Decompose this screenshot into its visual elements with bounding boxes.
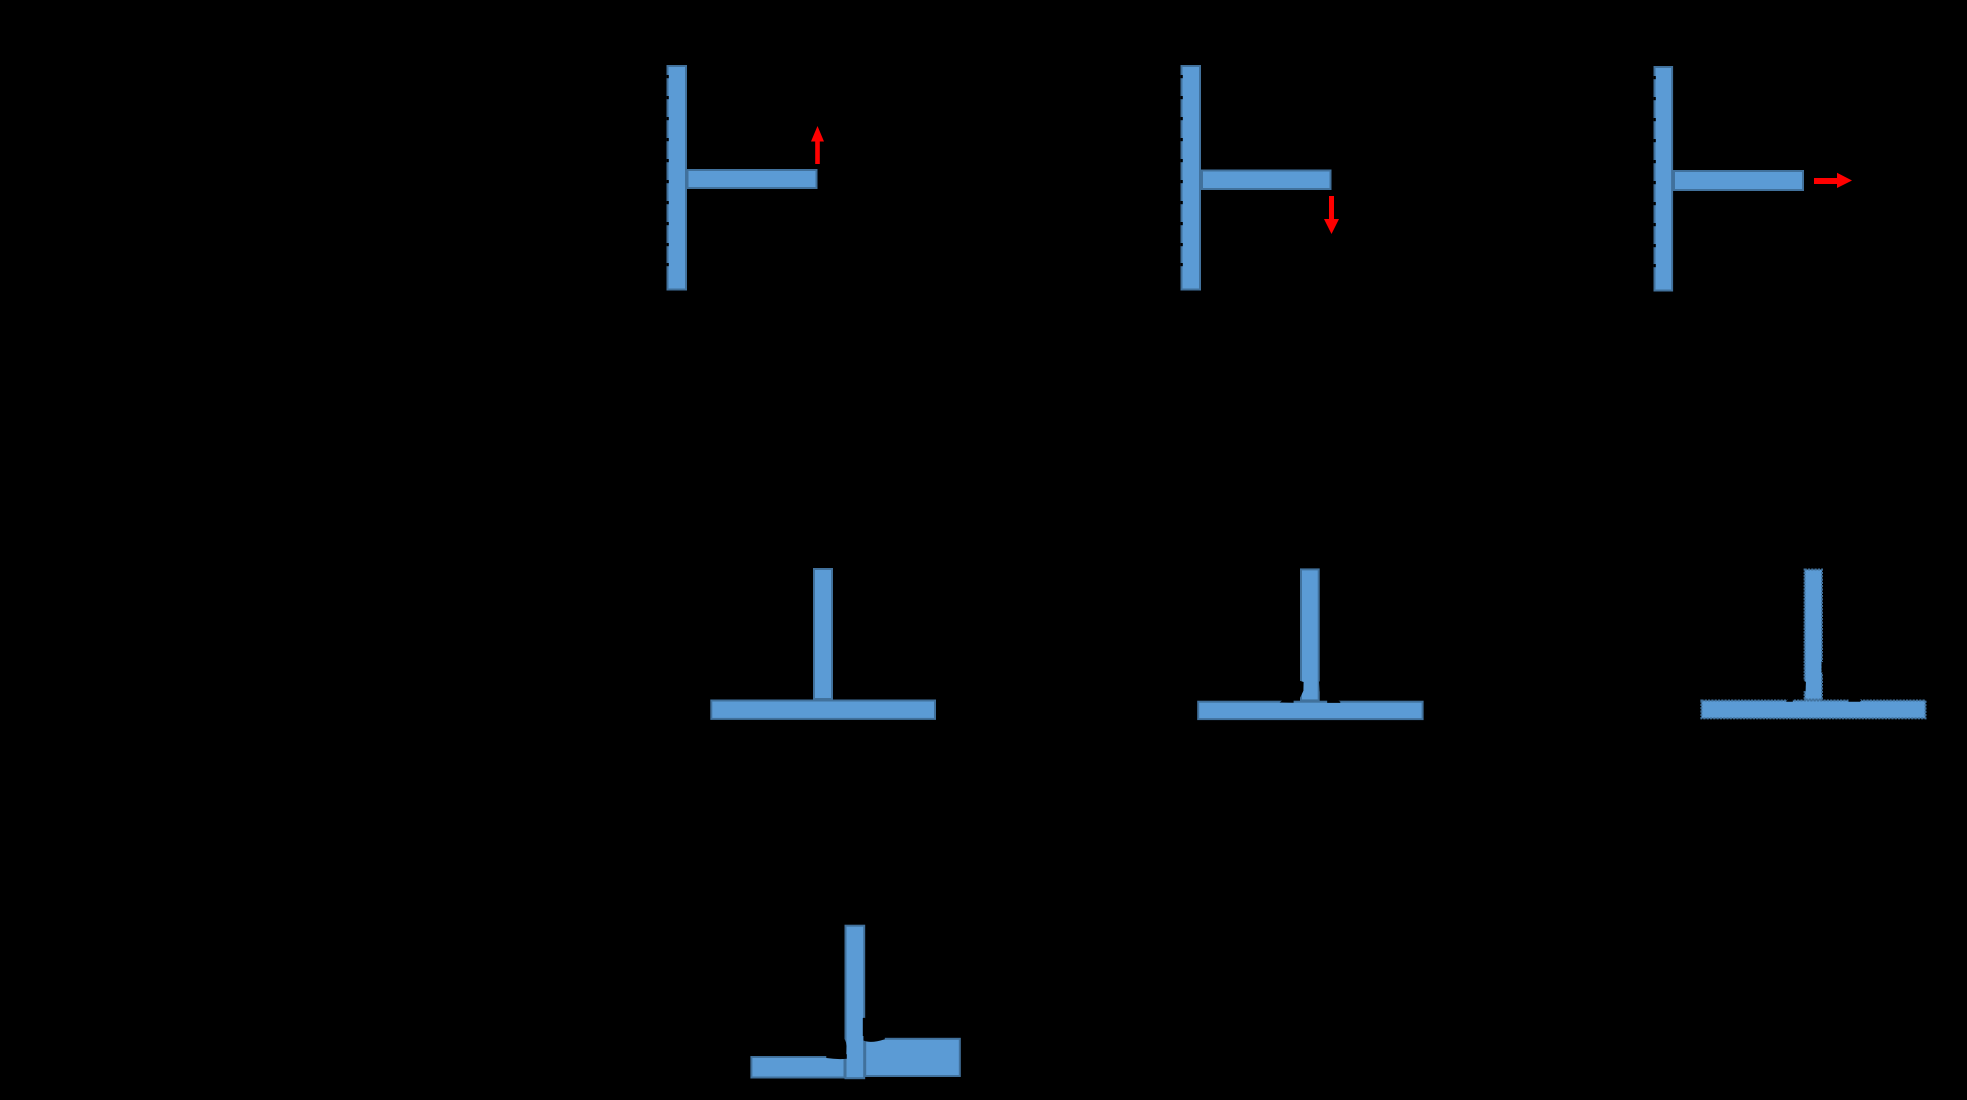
E base top-edge left blob — [1280, 698, 1294, 703]
joint F base plate (dotted outline) — [1701, 701, 1925, 719]
G left bead over left plate top edge — [826, 1054, 847, 1059]
joint G upright plate — [846, 926, 865, 1078]
G left vertical bead along upright left edge — [843, 1037, 847, 1057]
joint B vertical plate — [1182, 66, 1201, 290]
E left wedge on stem edge — [1299, 681, 1304, 698]
red force arrow up (joint A) — [811, 126, 824, 164]
E base top-edge right blob — [1327, 698, 1340, 703]
black dash nicks on joint B vertical plate left edge — [1181, 75, 1183, 266]
joint F weld bead marks — [1786, 662, 1861, 702]
joint D base plate — [711, 701, 935, 719]
joint G left lap plate — [751, 1057, 844, 1078]
black dash nicks on joint C vertical plate left edge — [1654, 76, 1656, 267]
joint G right lap plate — [865, 1039, 960, 1076]
G right bead blob over right plate top edge — [864, 1032, 885, 1042]
F left wedge on stem edge — [1803, 680, 1806, 691]
joint C vertical plate — [1655, 67, 1673, 291]
red force arrow down (joint B) — [1324, 196, 1339, 234]
black dash nicks on joint A vertical plate left edge — [667, 75, 669, 266]
F right wedge on stem edge — [1822, 662, 1827, 673]
joint E weld bead marks (black, visible over blue) — [1280, 681, 1341, 703]
joint A vertical plate — [668, 66, 687, 290]
joint A horizontal plate — [688, 170, 817, 188]
F base top-edge left dash — [1786, 698, 1793, 702]
E right wedge on stem edge — [1319, 681, 1322, 691]
F base top-edge right dash — [1849, 697, 1862, 701]
red force arrow right (joint C) — [1814, 173, 1852, 188]
joint D stem plate — [814, 569, 832, 699]
G right vertical bead along upright right edge — [863, 1018, 866, 1036]
joint G weld bead marks — [826, 1018, 885, 1059]
joint E base plate — [1198, 702, 1422, 719]
joint F stem plate (dotted outline) — [1805, 570, 1822, 700]
joint E stem plate — [1301, 569, 1319, 700]
joint B horizontal plate — [1202, 171, 1331, 190]
joint C horizontal plate — [1674, 171, 1803, 190]
